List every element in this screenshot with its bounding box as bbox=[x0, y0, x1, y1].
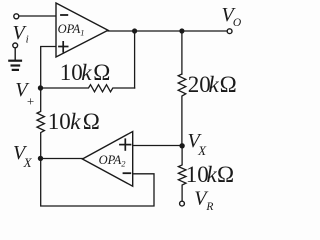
wire OPA2 output to VX left node bbox=[41, 158, 83, 160]
ground bbox=[8, 48, 22, 70]
node output junction 1 bbox=[132, 28, 137, 33]
terminal to ground bbox=[13, 43, 18, 48]
svg-text:i: i bbox=[26, 33, 29, 45]
node VX left bbox=[38, 156, 43, 161]
wire 20k top lead bbox=[181, 31, 183, 74]
wire feedback from output node down to R1 bbox=[134, 31, 136, 88]
resistor R4 10k vertical right bbox=[178, 146, 186, 201]
svg-text:10kΩ: 10kΩ bbox=[60, 60, 110, 85]
wire Vi to OPA1 inverting input bbox=[19, 15, 56, 17]
svg-text:X: X bbox=[23, 155, 33, 170]
wire OPA1 output bbox=[108, 30, 227, 32]
resistor R1 10k horizontal bbox=[41, 85, 135, 92]
wire VX right node to OPA2 + input bbox=[133, 145, 182, 147]
node VX right bbox=[179, 143, 184, 148]
resistor R2 10k vertical left bbox=[37, 88, 44, 158]
node V+ bbox=[38, 85, 43, 90]
svg-text:20kΩ: 20kΩ bbox=[188, 72, 237, 97]
svg-text:O: O bbox=[233, 17, 242, 29]
node output junction 2 bbox=[179, 28, 184, 33]
svg-text:R: R bbox=[205, 201, 213, 213]
terminal VR bbox=[180, 201, 185, 206]
svg-text:10kΩ: 10kΩ bbox=[186, 162, 234, 187]
svg-text:X: X bbox=[197, 143, 207, 158]
terminal Vi bbox=[14, 14, 19, 19]
svg-text:10kΩ: 10kΩ bbox=[48, 109, 100, 134]
svg-text:+: + bbox=[27, 94, 34, 109]
terminal Vo bbox=[227, 29, 232, 34]
op-amp U1 OPA1 bbox=[56, 3, 108, 57]
op-amp U2 OPA2 bbox=[82, 132, 132, 187]
resistor R3 20k vertical bbox=[178, 74, 186, 146]
wire OPA1 noninverting input to V+ node bbox=[41, 47, 56, 89]
wire OPA2 unity feedback loop bbox=[41, 159, 154, 207]
